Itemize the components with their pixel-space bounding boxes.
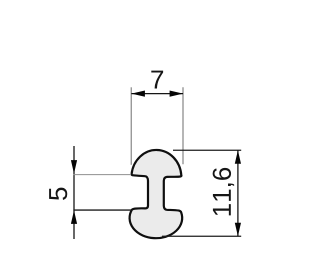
dimension 11,6: dimension line — [237, 150, 239, 236]
dimension 5: dimension line — [73, 146, 75, 239]
dimension 11,6: arrow top (pointing up) — [235, 150, 241, 164]
dimension 7: dimension line — [131, 93, 183, 95]
dimension 7: extension line right — [182, 87, 184, 164]
dimension 11,6: arrow bottom (pointing down) — [235, 223, 241, 237]
dimension 11,6: extension line bottom — [162, 235, 241, 237]
dimension 5: arrow top (pointing down) — [71, 160, 77, 174]
dimension 11,6: label — [213, 168, 234, 215]
profile cross-section (dumbbell shape) — [130, 150, 183, 238]
dimension 5: extension line top — [73, 174, 131, 176]
dimension 7: extension line left — [130, 87, 132, 165]
dimension 5: arrow bottom (pointing up) — [71, 210, 77, 224]
dimension 11,6: extension line top — [173, 149, 241, 151]
dimension 5: extension line bottom — [73, 209, 131, 211]
dimension 7: arrow right — [170, 91, 184, 97]
dimension 7: arrow left — [131, 91, 145, 97]
dimension 7: label — [151, 71, 163, 89]
dimension 5: label — [49, 188, 67, 200]
